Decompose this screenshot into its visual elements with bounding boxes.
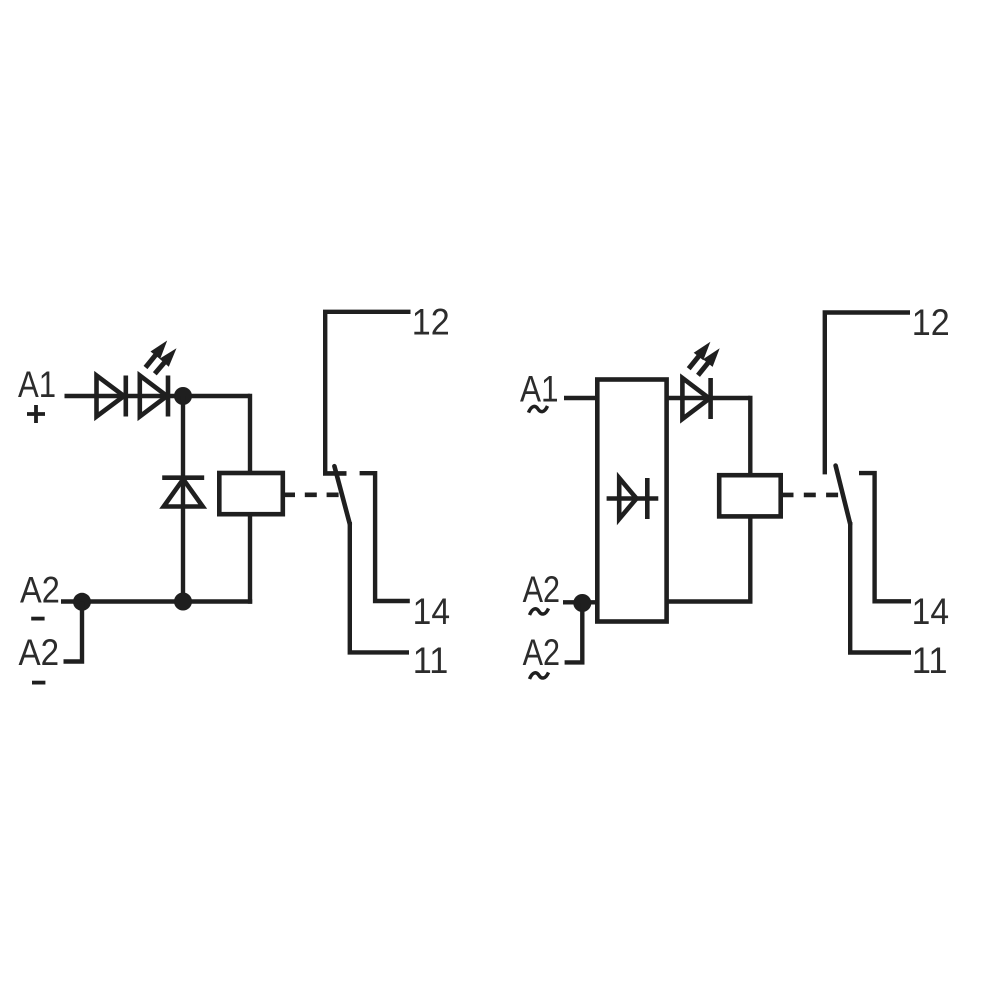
terminal label 14 of left contact: [413, 591, 450, 632]
terminal label A2 lower right: [523, 632, 560, 673]
wire contact branch 12: [325, 312, 410, 473]
contact lever K1: [334, 466, 349, 524]
terminal label 12 of right contact: [912, 302, 950, 343]
terminal label 11 of right contact: [912, 640, 948, 681]
svg-text:11: 11: [912, 640, 948, 681]
wire coil bottom to B1 right: [667, 516, 751, 601]
fixed NC contact bar left: [323, 471, 347, 476]
wire NO branch to terminal 14 left: [360, 473, 410, 601]
rectifier B1 internal diode: [607, 478, 659, 519]
wire common to terminal 11 right: [850, 522, 911, 653]
junction node A1/coil branch: [174, 387, 192, 405]
relay coil K2: [719, 475, 781, 516]
wire contact branch 12 right: [825, 313, 910, 475]
wire common to terminal 11 left: [350, 522, 409, 652]
svg-text:A2: A2: [523, 569, 560, 610]
LED D4 emission arrow 2: [698, 348, 720, 375]
terminal label A2 upper right: [523, 569, 560, 610]
terminal label 12 of left contact: [412, 301, 450, 342]
LED D4 emission arrow 1: [689, 342, 711, 369]
dashed actuator link right: [782, 493, 842, 498]
LED D2 emission arrow 1: [146, 341, 168, 368]
svg-text:A2: A2: [523, 632, 560, 673]
LED D4 right: [682, 378, 710, 419]
terminal label A2 upper: [20, 569, 60, 610]
junction node bus/D3: [174, 593, 192, 611]
svg-text:A2: A2: [19, 632, 60, 673]
LED D2 emission arrow 2: [155, 348, 177, 374]
junction node A2 right: [573, 594, 591, 612]
svg-text:A2: A2: [20, 569, 60, 610]
wire A2 lower lead: [64, 602, 83, 662]
wire junction down through D3: [181, 396, 185, 602]
wire NO branch to terminal 14 right: [859, 473, 911, 601]
wire junction to coil top: [248, 394, 252, 473]
wire A2 lead into B1 right: [563, 600, 597, 604]
suppressor diode D3: [162, 478, 204, 507]
AC mark tilde of A1 right: [529, 406, 548, 413]
LED D2: [140, 376, 168, 417]
relay coil K1: [219, 473, 282, 514]
terminal label 11 of left contact: [413, 640, 449, 681]
AC mark tilde of A2 lower right: [530, 672, 549, 679]
contact lever K2: [836, 466, 851, 524]
wire A2 bus: [82, 599, 252, 603]
wire B1 to LED right: [667, 396, 751, 400]
terminal label 14 of right contact: [912, 591, 949, 632]
terminal label A1 right: [520, 369, 559, 410]
svg-text:A1: A1: [18, 364, 56, 405]
svg-text:12: 12: [912, 302, 950, 343]
wire A2 lower lead right: [565, 603, 583, 662]
polarity mark − of A2 lower: [32, 681, 45, 685]
wire A2 upper lead: [61, 599, 82, 603]
dashed actuator link left: [283, 492, 342, 497]
polarity mark + of A1: [27, 405, 45, 423]
svg-text:11: 11: [413, 640, 449, 681]
terminal label A1: [18, 364, 56, 405]
wire A1 lead: [65, 394, 251, 398]
polarity mark − of A2 upper: [31, 617, 44, 621]
svg-text:14: 14: [912, 591, 949, 632]
rectifier B1 box: [597, 380, 666, 622]
AC mark tilde of A2 upper right: [530, 608, 549, 615]
svg-text:14: 14: [413, 591, 450, 632]
diode D1: [97, 376, 126, 417]
svg-text:12: 12: [412, 301, 450, 342]
wire coil bottom to A2 bus: [248, 514, 252, 604]
wire A1 lead right: [564, 396, 598, 400]
wire LED to coil top right: [748, 396, 752, 475]
svg-text:A1: A1: [520, 369, 559, 410]
terminal label A2 lower: [19, 632, 60, 673]
junction node A2 terminal: [73, 593, 91, 611]
